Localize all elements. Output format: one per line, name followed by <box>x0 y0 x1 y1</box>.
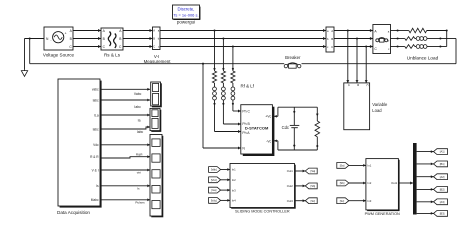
svg-text:Rf & Lf: Rf & Lf <box>241 84 255 89</box>
svg-text:[Sb]: [Sb] <box>340 181 345 185</box>
svg-text:ILa: ILa <box>94 113 99 117</box>
svg-text:Discrete,: Discrete, <box>178 7 195 12</box>
svg-text:A: A <box>331 29 333 33</box>
svg-text:+Vc: +Vc <box>265 115 271 119</box>
svg-text:Mabc: Mabc <box>91 198 99 202</box>
svg-text:[Sa]: [Sa] <box>311 169 316 173</box>
svg-text:Iabc: Iabc <box>137 130 144 134</box>
svg-text:Iabc: Iabc <box>134 105 141 109</box>
svg-text:B: B <box>153 37 155 41</box>
svg-text:Ph C: Ph C <box>242 110 250 114</box>
svg-text:Iabc: Iabc <box>93 127 99 131</box>
svg-text:[A2]: [A2] <box>440 175 445 179</box>
svg-text:Voltage Source: Voltage Source <box>43 52 75 57</box>
svg-text:Load: Load <box>372 108 382 113</box>
svg-text:Is: Is <box>96 184 99 188</box>
svg-text:In1: In1 <box>232 168 236 172</box>
svg-text:Out2: Out2 <box>287 184 294 188</box>
svg-text:In4: In4 <box>232 199 236 203</box>
svg-text:Ph A: Ph A <box>242 131 250 135</box>
svg-text:Data Acquisition: Data Acquisition <box>57 210 90 215</box>
svg-text:Ts = 1e-006 s.: Ts = 1e-006 s. <box>173 12 198 17</box>
svg-text:Vabc: Vabc <box>134 92 142 96</box>
svg-text:A: A <box>153 29 155 33</box>
svg-text:[Vdc]: [Vdc] <box>211 199 217 203</box>
svg-text:Rs & Ls: Rs & Ls <box>104 52 121 57</box>
svg-text:SLIDING MODE CONTROLLER: SLIDING MODE CONTROLLER <box>235 209 290 213</box>
svg-text:+: + <box>65 32 67 36</box>
svg-text:C: C <box>331 45 333 49</box>
svg-text:Out1: Out1 <box>391 181 398 185</box>
svg-text:Iabc: Iabc <box>93 98 99 102</box>
svg-text:Unblance Load: Unblance Load <box>407 56 439 61</box>
svg-text:Cdc: Cdc <box>282 125 289 130</box>
svg-text:In3: In3 <box>232 188 236 192</box>
svg-text:In2: In2 <box>367 181 371 185</box>
svg-text:[B1]: [B1] <box>440 162 445 166</box>
svg-text:In3: In3 <box>367 199 371 203</box>
svg-text:[Vab]: [Vab] <box>211 168 217 172</box>
svg-text:[Sb]: [Sb] <box>311 184 316 188</box>
svg-text:D-STATCOM: D-STATCOM <box>245 126 269 131</box>
svg-text:[Sa]: [Sa] <box>340 164 345 168</box>
svg-text:Vdc: Vdc <box>93 143 99 147</box>
svg-text:-: - <box>50 38 51 42</box>
svg-text:powergui: powergui <box>177 19 195 24</box>
svg-text:vtri: vtri <box>137 171 141 175</box>
svg-text:Variable: Variable <box>372 102 388 107</box>
svg-text:Measurement: Measurement <box>144 59 172 64</box>
svg-text:B: B <box>356 84 360 86</box>
svg-text:[A3]: [A3] <box>440 200 445 204</box>
svg-text:R & R: R & R <box>90 155 99 159</box>
svg-text:Out3: Out3 <box>287 199 294 203</box>
svg-text:[B2]: [B2] <box>440 188 445 192</box>
svg-text:Pulses: Pulses <box>135 200 145 204</box>
svg-text:Breaker: Breaker <box>285 55 301 60</box>
svg-text:[Sc]: [Sc] <box>340 199 345 203</box>
svg-text:[B3]: [B3] <box>440 212 445 216</box>
svg-text:PWM GENERATION: PWM GENERATION <box>365 212 400 216</box>
svg-text:R&R: R&R <box>136 153 143 157</box>
svg-text:[Vbc]: [Vbc] <box>211 178 217 182</box>
svg-text:[ILa]: [ILa] <box>211 188 216 192</box>
svg-text:[A1]: [A1] <box>440 150 445 154</box>
svg-text:Out1: Out1 <box>287 169 294 173</box>
svg-text:C: C <box>153 45 155 49</box>
svg-text:A: A <box>347 84 351 86</box>
svg-text:In2: In2 <box>232 178 236 182</box>
svg-text:B: B <box>331 37 333 41</box>
svg-text:Ia: Ia <box>138 119 141 123</box>
svg-text:vabc: vabc <box>92 88 99 92</box>
svg-text:-Vc: -Vc <box>266 139 271 143</box>
svg-text:V & I: V & I <box>92 168 99 172</box>
svg-text:In1: In1 <box>367 164 371 168</box>
svg-text:[Sc]: [Sc] <box>311 199 316 203</box>
